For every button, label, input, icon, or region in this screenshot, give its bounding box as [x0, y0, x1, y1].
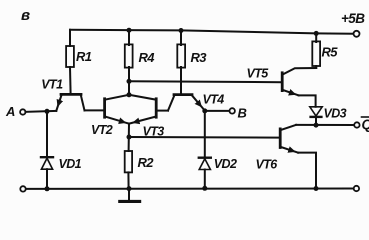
- svg-text:R1: R1: [76, 49, 92, 64]
- node junction top rail R5: [314, 31, 319, 36]
- diode VD2: [199, 111, 237, 188]
- ground: [120, 189, 140, 202]
- wire VT5 emitter to VD3: [299, 95, 316, 106]
- wire to B terminal: [205, 110, 230, 112]
- node junction rail VD2: [202, 186, 207, 191]
- svg-text:A: A: [5, 104, 15, 119]
- node junction bus R4: [127, 79, 132, 84]
- wire bottom rail: [26, 188, 354, 190]
- svg-text:VT4: VT4: [203, 93, 225, 107]
- resistor R3: [177, 31, 207, 94]
- wire to VT6 base: [129, 136, 280, 139]
- node junction VD3/output: [314, 123, 319, 128]
- resistor R1: [66, 30, 92, 94]
- diode VD1: [41, 111, 82, 188]
- svg-text:+5В: +5В: [341, 11, 365, 26]
- svg-text:Q: Q: [362, 117, 369, 132]
- label Q output: [362, 117, 369, 132]
- transistor VT4: [156, 93, 224, 111]
- svg-text:VD3: VD3: [324, 107, 347, 121]
- node A terminal: [20, 109, 25, 114]
- resistor R5: [312, 33, 338, 68]
- node output terminal: [354, 122, 359, 127]
- node junction top rail R3: [179, 28, 184, 33]
- diode VD3: [310, 107, 347, 126]
- node junction rail VD1: [45, 186, 50, 191]
- svg-text:R3: R3: [191, 50, 208, 65]
- svg-text:VT2: VT2: [91, 123, 113, 137]
- svg-text:VT6: VT6: [256, 158, 279, 172]
- node bottom-right terminal: [354, 186, 359, 191]
- resistor R4: [125, 30, 155, 81]
- svg-text:VD1: VD1: [59, 157, 82, 171]
- node junction emitters wire to VT6 base: [127, 135, 132, 140]
- transistor VT1: [41, 78, 84, 111]
- node junction B/VD2: [202, 108, 207, 113]
- node bottom-left terminal: [20, 186, 25, 191]
- node junction A/VD1: [45, 109, 50, 114]
- wire top +5V rail: [70, 30, 354, 34]
- node junction top rail R4: [127, 28, 132, 33]
- svg-text:B: B: [238, 106, 247, 121]
- svg-text:в: в: [21, 7, 30, 24]
- wire emitters vertex down to R2: [128, 124, 130, 151]
- node junction rail R2/ground: [127, 186, 132, 191]
- wire VT1 collector to VT2 base: [85, 109, 104, 111]
- transistor VT2: [91, 95, 129, 137]
- svg-text:R4: R4: [139, 50, 156, 65]
- node junction collectors vertex: [127, 92, 132, 97]
- svg-text:VT5: VT5: [247, 67, 270, 81]
- transistor VT6: [256, 125, 299, 172]
- wire R4 node to collectors vertex: [128, 81, 130, 95]
- wire bus R4/collectors to VT5 base: [129, 80, 282, 83]
- transistor VT3: [129, 95, 164, 139]
- node B terminal: [230, 108, 235, 113]
- wire input A: [25, 111, 56, 112]
- svg-text:R5: R5: [322, 45, 339, 60]
- resistor R2: [125, 151, 155, 189]
- node junction VT6 emitter rail: [314, 186, 319, 191]
- wire output: [296, 124, 354, 126]
- wire VT6 emitter down: [298, 153, 316, 189]
- svg-text:VD2: VD2: [214, 157, 237, 171]
- svg-text:R2: R2: [138, 155, 155, 170]
- node +5V terminal: [354, 31, 360, 37]
- svg-text:VT1: VT1: [41, 78, 63, 92]
- transistor VT5: [247, 67, 317, 96]
